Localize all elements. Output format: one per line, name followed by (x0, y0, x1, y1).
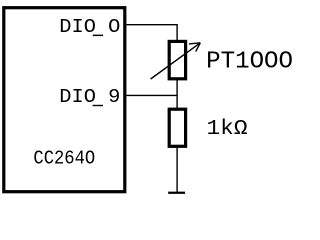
svg-text:DIO 9: DIO 9 (59, 86, 120, 108)
thermistor RT1 body (PT1000) (169, 41, 185, 78)
IC U1 CC2640 box (4, 8, 125, 192)
pin label DIO_9 underscore (93, 105, 103, 106)
pin label DIO_0 underscore (93, 35, 103, 37)
svg-text:1kΩ: 1kΩ (207, 118, 248, 141)
ground symbol (168, 192, 185, 194)
svg-text:DIO O: DIO O (59, 16, 120, 38)
thermistor arrow head (189, 43, 200, 52)
svg-text:PT1OOO: PT1OOO (206, 49, 293, 76)
wire R1 bottom to ground (176, 147, 178, 193)
resistor R1 body (1k) (169, 109, 185, 146)
wire DIO_9 pin to node (126, 94, 177, 96)
wire PT1000 bottom to node / R1 top (176, 79, 178, 109)
thermistor arrow line (151, 43, 201, 79)
svg-text:CC264O: CC264O (33, 147, 95, 169)
wire DIO_0 pin to PT1000 top (126, 25, 177, 41)
